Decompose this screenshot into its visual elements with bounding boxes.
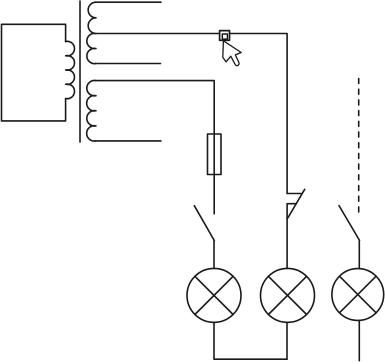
- transformer T1 primary winding: [66, 41, 75, 98]
- mouse cursor: [223, 41, 241, 66]
- fuse F1: [213, 134, 215, 175]
- wire: lamp 1 to bottom bus: [214, 322, 287, 359]
- wire: secondary 2 top tap to fuse: [95, 81, 214, 134]
- power supply box (left): [2, 24, 66, 121]
- circuit breaker SW2 contact A: [287, 193, 301, 195]
- wire: switch 1 to lamp 1: [213, 241, 215, 269]
- wire: secondary 2 bottom tap stub: [95, 140, 161, 142]
- wire: switch 3 to lamp 3: [358, 240, 360, 268]
- transformer T1 secondary winding 1 (top, centre-tapped): [87, 2, 96, 63]
- transformer T1 secondary winding 2 (lower): [87, 80, 96, 141]
- circuit breaker SW2 blade: [287, 189, 304, 218]
- wire: breaker to lamp 2: [286, 219, 288, 269]
- wire: secondary 1 centre tap to breaker (top rail): [95, 34, 287, 194]
- lamp L3: [332, 269, 384, 321]
- wire: lamp 3 bottom stub: [358, 320, 360, 360]
- switch SW3 (open blade): [339, 206, 360, 241]
- wire: secondary 1 top tap stub: [95, 1, 161, 3]
- circuit breaker SW2 contact B: [287, 204, 296, 219]
- lamp L2: [261, 268, 315, 322]
- lamp L1: [187, 268, 241, 322]
- connection handle (selected junction square): [220, 31, 230, 41]
- transformer core: [79, 1, 81, 142]
- wire: fuse to switch 1: [213, 175, 215, 214]
- wire: bottom bus to lamp 2: [286, 322, 288, 359]
- wire: secondary 1 bottom tap stub: [95, 63, 161, 65]
- switch SW1 (open blade): [194, 206, 214, 241]
- dashed wire (disconnected feed to switch 3): [358, 79, 360, 215]
